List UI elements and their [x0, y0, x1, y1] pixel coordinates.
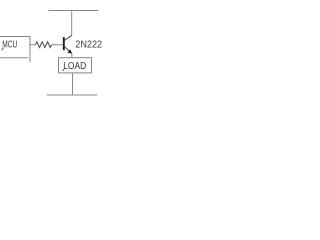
load box	[59, 58, 92, 73]
wire: emitter to load	[71, 53, 73, 57]
transistor Q1 (NPN 2N222)	[64, 35, 72, 53]
V+ rail (top)	[49, 10, 99, 12]
svg-text:2N222: 2N222	[75, 40, 102, 51]
wire: load to bottom rail	[72, 73, 74, 95]
ground rail (bottom)	[47, 94, 98, 96]
label LOAD	[63, 61, 87, 72]
wire: resistor to base	[52, 44, 63, 46]
label 2N222	[75, 40, 102, 51]
svg-text:MCU: MCU	[2, 40, 17, 51]
wire: MCU to resistor	[31, 44, 36, 46]
MCU box (clipped at left edge)	[0, 37, 30, 63]
svg-text:LOAD: LOAD	[63, 61, 86, 72]
wire: collector riser	[71, 11, 73, 36]
resistor R1	[36, 42, 52, 48]
label MCU	[2, 40, 18, 51]
